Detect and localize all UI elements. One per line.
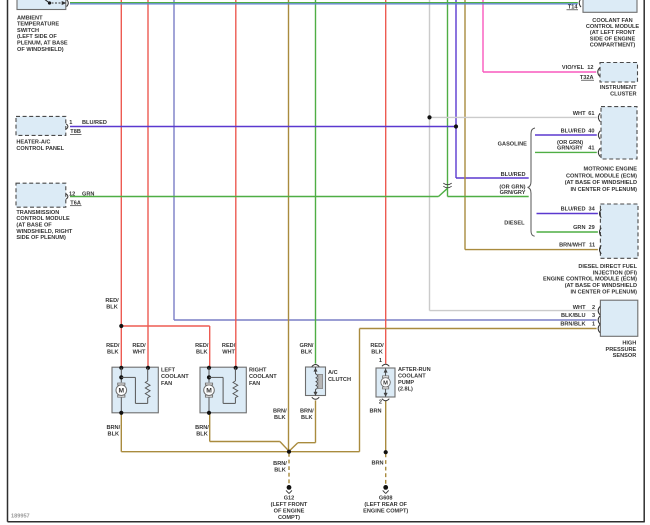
svg-text:WHT: WHT: [573, 111, 586, 117]
svg-text:HEATER-A/C: HEATER-A/C: [16, 140, 50, 146]
svg-text:CLUSTER: CLUSTER: [610, 92, 636, 98]
svg-text:(LEFT SIDE OF: (LEFT SIDE OF: [17, 34, 57, 40]
svg-text:1: 1: [69, 120, 72, 126]
svg-text:(LEFT REAR OF: (LEFT REAR OF: [364, 502, 407, 508]
svg-text:BLK: BLK: [371, 350, 383, 356]
svg-text:DIESEL: DIESEL: [504, 220, 525, 226]
svg-text:TRANSMISSION: TRANSMISSION: [16, 210, 59, 216]
svg-text:G12: G12: [284, 495, 295, 501]
svg-text:BLK: BLK: [107, 350, 119, 356]
svg-text:MOTRONIC ENGINE: MOTRONIC ENGINE: [584, 167, 638, 173]
svg-text:PRESSURE: PRESSURE: [606, 347, 637, 353]
svg-text:(LEFT FRONT: (LEFT FRONT: [271, 502, 308, 508]
svg-text:BLU/RED: BLU/RED: [561, 206, 586, 212]
svg-text:BLK: BLK: [106, 305, 118, 311]
svg-text:(AT LEFT FRONT: (AT LEFT FRONT: [590, 30, 636, 36]
svg-text:GRN/GRY: GRN/GRY: [557, 146, 583, 152]
svg-text:COMPARTMENT): COMPARTMENT): [590, 43, 636, 49]
svg-text:3: 3: [592, 313, 595, 319]
svg-text:29: 29: [588, 225, 594, 231]
svg-text:WHT: WHT: [133, 350, 146, 356]
svg-text:RIGHT: RIGHT: [249, 368, 267, 374]
svg-text:SIDE OF ENGINE: SIDE OF ENGINE: [590, 36, 636, 42]
svg-text:ENGINE COMPT): ENGINE COMPT): [363, 508, 408, 514]
svg-text:BLK: BLK: [108, 432, 120, 438]
svg-text:G608: G608: [379, 495, 393, 501]
svg-text:BRN/: BRN/: [273, 461, 287, 467]
svg-text:BRN/BLK: BRN/BLK: [560, 322, 585, 328]
svg-text:COOLANT: COOLANT: [249, 374, 277, 380]
svg-text:BLK: BLK: [301, 415, 313, 421]
svg-text:WHT: WHT: [222, 350, 235, 356]
svg-text:BRN/: BRN/: [300, 409, 314, 415]
svg-text:(AT BASE OF WINDSHIELD: (AT BASE OF WINDSHIELD: [565, 180, 637, 186]
svg-text:INSTRUMENT: INSTRUMENT: [600, 85, 637, 91]
svg-text:ENGINE CONTROL MODULE (ECM): ENGINE CONTROL MODULE (ECM): [543, 277, 637, 283]
svg-text:34: 34: [588, 206, 595, 212]
svg-text:FAN: FAN: [161, 381, 172, 387]
svg-text:IN CENTER OF PLENUM): IN CENTER OF PLENUM): [570, 289, 637, 295]
svg-text:AMBIENT: AMBIENT: [17, 15, 43, 21]
svg-text:GRN: GRN: [573, 225, 585, 231]
svg-text:OF ENGINE: OF ENGINE: [274, 508, 305, 514]
svg-text:COMPT): COMPT): [278, 515, 300, 521]
svg-text:BLK: BLK: [274, 415, 286, 421]
svg-text:CLUTCH: CLUTCH: [328, 377, 351, 383]
svg-text:GRN/: GRN/: [300, 343, 314, 349]
svg-text:2: 2: [379, 400, 382, 406]
svg-text:IN CENTER OF PLENUM): IN CENTER OF PLENUM): [570, 187, 637, 193]
svg-text:12: 12: [69, 191, 75, 197]
svg-text:BRN: BRN: [371, 461, 383, 467]
svg-text:INJECTION (DFI): INJECTION (DFI): [593, 270, 637, 276]
svg-text:VIO/YEL: VIO/YEL: [562, 65, 585, 71]
svg-text:GRN/GRY: GRN/GRY: [500, 190, 526, 196]
svg-text:RED/: RED/: [132, 343, 146, 349]
svg-text:LEFT: LEFT: [161, 368, 176, 374]
svg-text:CONTROL MODULE: CONTROL MODULE: [586, 24, 640, 30]
svg-text:BLU/RED: BLU/RED: [82, 120, 107, 126]
svg-text:BRN/: BRN/: [195, 425, 209, 431]
svg-text:OF WINDSHIELD): OF WINDSHIELD): [17, 47, 64, 53]
svg-text:BLK: BLK: [301, 350, 313, 356]
svg-text:BLU/RED: BLU/RED: [501, 172, 526, 178]
svg-text:RED/: RED/: [370, 343, 384, 349]
svg-text:2: 2: [592, 305, 595, 311]
svg-text:WINDSHIELD, RIGHT: WINDSHIELD, RIGHT: [16, 229, 73, 235]
svg-text:GASOLINE: GASOLINE: [498, 142, 527, 148]
svg-text:M: M: [383, 381, 388, 387]
svg-text:BRN/: BRN/: [273, 409, 287, 415]
svg-text:1: 1: [592, 322, 595, 328]
svg-text:COOLANT FAN: COOLANT FAN: [592, 18, 632, 24]
svg-text:SIDE OF PLENUM): SIDE OF PLENUM): [16, 235, 66, 241]
svg-text:BLK: BLK: [196, 350, 208, 356]
svg-text:BRN/: BRN/: [106, 425, 120, 431]
svg-text:BLK/BLU: BLK/BLU: [561, 313, 586, 319]
svg-text:WHT: WHT: [573, 305, 586, 311]
svg-text:1: 1: [379, 358, 382, 364]
svg-text:(2.8L): (2.8L): [398, 386, 413, 392]
svg-text:HIGH: HIGH: [622, 341, 636, 347]
svg-text:189957: 189957: [11, 514, 30, 520]
svg-text:CONTROL MODULE: CONTROL MODULE: [16, 216, 70, 222]
svg-text:RED/: RED/: [222, 343, 236, 349]
svg-text:RED/: RED/: [105, 298, 119, 304]
svg-text:A/C: A/C: [328, 370, 338, 376]
svg-text:BRN: BRN: [369, 408, 381, 414]
svg-text:PUMP: PUMP: [398, 380, 414, 386]
svg-text:TEMPERATURE: TEMPERATURE: [17, 22, 59, 28]
svg-text:SWITCH: SWITCH: [17, 28, 39, 34]
svg-text:AFTER-RUN: AFTER-RUN: [398, 367, 431, 373]
svg-text:M: M: [206, 388, 212, 395]
svg-text:61: 61: [588, 111, 594, 117]
svg-text:CONTROL PANEL: CONTROL PANEL: [16, 146, 64, 152]
svg-text:40: 40: [588, 128, 594, 134]
svg-text:11: 11: [589, 243, 595, 249]
svg-text:COOLANT: COOLANT: [161, 374, 189, 380]
svg-text:COOLANT: COOLANT: [398, 373, 426, 379]
svg-text:41: 41: [588, 146, 594, 152]
svg-text:RED/: RED/: [195, 343, 209, 349]
svg-text:BLK: BLK: [274, 467, 286, 473]
svg-text:GRN: GRN: [82, 191, 94, 197]
svg-text:BLK: BLK: [196, 432, 208, 438]
svg-text:CONTROL MODULE (ECM): CONTROL MODULE (ECM): [566, 173, 637, 179]
svg-text:SENSOR: SENSOR: [613, 353, 637, 359]
svg-text:BLU/RED: BLU/RED: [561, 128, 586, 134]
svg-text:FAN: FAN: [249, 381, 260, 387]
svg-text:DIESEL DIRECT FUEL: DIESEL DIRECT FUEL: [578, 264, 637, 270]
svg-text:M: M: [119, 388, 125, 395]
svg-text:12: 12: [587, 65, 593, 71]
svg-text:PLENUM, AT BASE: PLENUM, AT BASE: [17, 41, 68, 47]
svg-text:BRN/WHT: BRN/WHT: [559, 243, 586, 249]
svg-text:(AT BASE OF WINDSHIELD: (AT BASE OF WINDSHIELD: [565, 283, 637, 289]
svg-text:(AT BASE OF: (AT BASE OF: [16, 223, 52, 229]
svg-text:RED/: RED/: [106, 343, 120, 349]
